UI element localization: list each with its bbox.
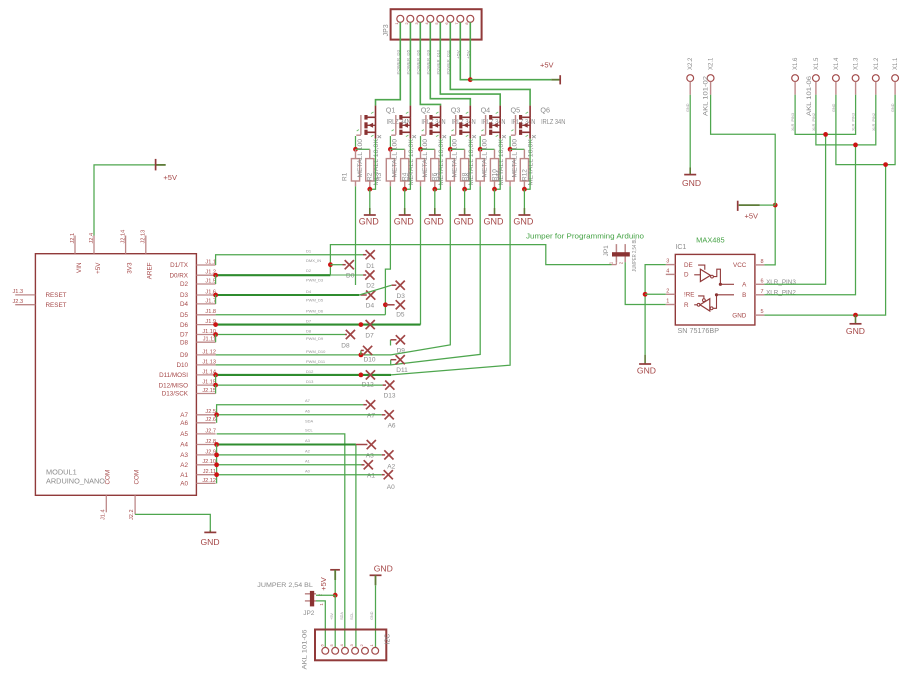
wire diagonal to D3 flag — [359, 285, 391, 295]
svg-text:A4: A4 — [180, 442, 188, 449]
svg-text:1: 1 — [666, 299, 669, 305]
net stub A2 — [382, 454, 385, 456]
wire gate node Q4 — [450, 148, 464, 150]
junction PWM_D5/D5 flag node — [383, 302, 388, 307]
wire net D7 (J1.9 row) — [216, 324, 421, 326]
junction gate node Q2 — [388, 147, 393, 152]
wire X2.2 to GND — [689, 95, 691, 168]
svg-text:A6: A6 — [305, 408, 311, 413]
svg-text:J2.3: J2.3 — [13, 299, 24, 305]
svg-text:D12: D12 — [306, 369, 314, 374]
svg-text:D0/RX: D0/RX — [169, 272, 188, 279]
junction gate node Q4 — [448, 147, 453, 152]
wire source Q6 to ground node — [524, 139, 530, 190]
pin J2.3 (RESET) stub — [15, 304, 35, 306]
svg-text:A6: A6 — [388, 423, 396, 430]
svg-text:PWM_D6: PWM_D6 — [306, 309, 324, 314]
svg-text:J2.14: J2.14 — [120, 230, 126, 244]
pin J1.10 (D7) stub — [196, 334, 215, 336]
svg-text:GND: GND — [682, 178, 701, 188]
net stub A7 — [363, 404, 367, 406]
junction J2.10 — [214, 462, 219, 467]
svg-text:GND: GND — [686, 103, 690, 112]
JP3 pin 5 circle — [437, 15, 444, 22]
supply +5V symbol (JP2) — [330, 569, 340, 571]
pin J1.5 (D2) stub — [196, 283, 215, 285]
pin J1.15 (D12/MISO) stub — [196, 384, 215, 386]
svg-text:D1: D1 — [366, 263, 375, 270]
svg-text:A1: A1 — [305, 458, 311, 463]
connector X1.4 pin — [833, 75, 840, 82]
svg-text:3V3: 3V3 — [126, 262, 133, 274]
svg-text:7: 7 — [761, 289, 764, 295]
junction gate node Q6 — [508, 147, 513, 152]
svg-text:D7: D7 — [180, 332, 189, 339]
pin J1.8 (D5) stub — [196, 314, 215, 316]
wire PWM_D3 from R1 — [355, 186, 357, 285]
svg-text:+5V: +5V — [330, 613, 334, 620]
I2C pin 4 circle — [342, 647, 349, 654]
svg-text:D1: D1 — [306, 248, 312, 253]
I2C pin 2 circle — [362, 647, 369, 654]
transistor Q1 IRLZ 34N — [360, 115, 362, 135]
svg-text:AREF: AREF — [147, 262, 154, 279]
pin J2.11 (A1) stub — [196, 474, 215, 476]
wire net PWM_D10 (J1.12 row) — [216, 354, 391, 356]
svg-text:B: B — [742, 292, 746, 299]
wire net D2 continuation — [330, 274, 363, 276]
svg-text:A3: A3 — [180, 452, 188, 459]
junction J1.9 — [213, 322, 218, 327]
wire net A7 (J2.5 stub up) — [217, 405, 364, 415]
svg-text:ARDUINO_NANO: ARDUINO_NANO — [46, 476, 105, 485]
svg-text:D7: D7 — [306, 318, 312, 323]
junction J2.5 — [214, 412, 219, 417]
svg-text:D9: D9 — [180, 352, 189, 359]
net stub D0 — [330, 264, 342, 266]
I2C pin 5 circle — [332, 647, 339, 654]
wire net A2 (J2.9 row) — [217, 454, 382, 456]
svg-text:X1.5: X1.5 — [814, 57, 820, 70]
svg-text:A2: A2 — [305, 449, 311, 454]
svg-text:GND: GND — [637, 365, 656, 375]
wire J1.2 to J1.5 — [215, 275, 217, 284]
net flag D1 — [366, 250, 375, 259]
svg-text:GND: GND — [454, 217, 475, 227]
svg-text:Q1: Q1 — [386, 106, 396, 115]
net stub A6 — [382, 414, 386, 416]
svg-text:D13/SCK: D13/SCK — [162, 391, 189, 398]
pin J2.5 (A7) stub — [196, 414, 215, 416]
svg-text:GND: GND — [484, 217, 505, 227]
wire gate Q4 — [449, 136, 451, 149]
IC1 pin 4 (D) stub — [666, 273, 676, 275]
supply +5V symbol (MAX485) — [739, 204, 760, 206]
svg-text:MODUL1: MODUL1 — [46, 468, 77, 477]
net stub D13 — [383, 384, 386, 386]
svg-text:J2.11: J2.11 — [203, 469, 216, 475]
pin J1.6 (D3) stub — [196, 294, 215, 296]
wire POWER_D5 JP3.2 to Q2 drain — [409, 22, 411, 105]
junction ground node Q5 — [492, 187, 497, 192]
jumper JP1 body — [615, 244, 617, 262]
junction J1.2 — [213, 273, 218, 278]
svg-text:Jumper for Programming Arduino: Jumper for Programming Arduino — [526, 232, 644, 241]
svg-text:D6: D6 — [180, 322, 189, 329]
svg-text:MAX485: MAX485 — [696, 237, 725, 244]
svg-text:X1.3: X1.3 — [854, 57, 860, 70]
wire JP2 pin2 branch — [316, 594, 335, 596]
wire gate node Q5 — [480, 148, 494, 150]
wire GND pin5 — [764, 165, 885, 316]
svg-text:J1.11: J1.11 — [203, 337, 216, 343]
net flag D2 — [365, 270, 374, 279]
ground GND (Q3 channel) — [434, 189, 436, 208]
svg-text:VCC: VCC — [733, 262, 747, 269]
svg-text:D0: D0 — [346, 272, 355, 279]
connector X1.1 pin — [892, 75, 899, 82]
svg-text:D10: D10 — [364, 357, 376, 364]
net flag D9 — [396, 335, 405, 344]
svg-text:J2.15: J2.15 — [202, 388, 216, 394]
wire net PWM_D6 (J1.8 row) — [216, 314, 386, 316]
svg-text:D5: D5 — [396, 312, 405, 319]
svg-text:JUMPER 2,54 BL: JUMPER 2,54 BL — [257, 582, 313, 589]
wire gate node Q2 — [390, 148, 404, 150]
svg-text:SDA: SDA — [340, 612, 344, 620]
net stub D8 — [345, 334, 347, 336]
wire net D1 (J1.1 stub up) — [216, 255, 363, 265]
svg-text:A7: A7 — [367, 413, 375, 420]
net flag D8 — [346, 330, 355, 339]
svg-text:J1.3: J1.3 — [13, 289, 24, 295]
pin J2.6 (A6) stub — [196, 422, 215, 424]
svg-text:D2: D2 — [180, 281, 189, 288]
net flag A1 — [364, 460, 373, 469]
connector X2.2 pin — [687, 75, 694, 82]
junction ground node Q1 — [367, 187, 372, 192]
IC1 internal receiver buffer — [700, 299, 710, 311]
connector X1.5 pin — [813, 75, 820, 82]
junction D7 flag node — [359, 322, 364, 327]
net flag D0 — [345, 260, 354, 269]
svg-text:R1: R1 — [341, 172, 348, 181]
IC1 pin 6 (A) stub — [755, 283, 765, 285]
svg-text:GND: GND — [370, 611, 374, 620]
svg-text:METALL 100: METALL 100 — [511, 138, 518, 177]
svg-text:5: 5 — [761, 309, 764, 315]
svg-text:XLR_PIN3: XLR_PIN3 — [766, 279, 796, 286]
svg-text:A7: A7 — [180, 412, 188, 419]
pin J2.10 (A2) stub — [196, 464, 215, 466]
svg-text:D10: D10 — [176, 362, 188, 369]
resistor R12 METALL 18,0K — [523, 149, 525, 158]
svg-text:D11: D11 — [396, 367, 408, 374]
svg-text:J1.8: J1.8 — [205, 309, 216, 315]
junction J2.8 — [214, 442, 219, 447]
svg-text:A1: A1 — [367, 472, 375, 479]
svg-text:I2C: I2C — [385, 634, 392, 645]
resistor R6 METALL 18,0K — [434, 149, 436, 158]
junction ground node Q4 — [462, 187, 467, 192]
wire XLR_PIN2 bus (X1.5-X1.2) — [816, 95, 876, 145]
wire net SDA (J2.8 row) — [217, 443, 356, 445]
svg-text:J2.6: J2.6 — [205, 417, 216, 423]
svg-text:VIN: VIN — [76, 262, 83, 273]
svg-text:A0: A0 — [387, 484, 395, 491]
svg-text:J1.12: J1.12 — [202, 349, 216, 355]
wire JP2 pin1 to I2C pin6 — [316, 601, 325, 647]
wire PWM_D11 from R11 — [391, 186, 510, 375]
IC1 internal junction A — [719, 283, 722, 286]
wire +5V from J2.4 — [94, 165, 156, 236]
svg-text:Q2: Q2 — [421, 106, 431, 115]
svg-text:PWM_D11: PWM_D11 — [306, 359, 326, 364]
svg-text:AKL 101-06: AKL 101-06 — [807, 75, 813, 116]
net flag D4 — [366, 291, 375, 300]
svg-text:A6: A6 — [180, 420, 188, 427]
svg-text:RESET: RESET — [46, 292, 67, 299]
svg-text:GND: GND — [374, 563, 393, 573]
svg-text:X1.2: X1.2 — [874, 57, 880, 70]
svg-text:A3: A3 — [366, 452, 374, 459]
supply +5V symbol (left) — [156, 164, 166, 166]
svg-text:R9: R9 — [466, 172, 473, 181]
IC1 internal driver buffer — [700, 269, 710, 281]
ground GND (X2.2) — [689, 168, 691, 175]
wire DMX_IN up — [330, 245, 611, 275]
pin J2.7 (A5) stub — [196, 433, 215, 435]
svg-text:JP3: JP3 — [383, 24, 390, 36]
net flag D12 — [366, 370, 375, 379]
wire PWM_D5 from R3 — [385, 186, 390, 314]
wire XLR_PIN3 bus (X1.6-X1.3) — [795, 95, 856, 135]
svg-text:+5V: +5V — [319, 577, 328, 591]
svg-text:X1.1: X1.1 — [893, 57, 899, 70]
svg-text:R5: R5 — [406, 172, 413, 181]
net stub D9 (floating) — [390, 340, 392, 346]
svg-text:GND: GND — [732, 312, 746, 319]
svg-text:JP1: JP1 — [603, 245, 610, 257]
wire source Q4 to ground node — [465, 139, 471, 190]
svg-text:PWM_D10: PWM_D10 — [306, 349, 326, 354]
wire +5V rail to symbol — [470, 79, 551, 81]
wire PWM_D6 from R5 — [420, 186, 422, 324]
junction J1.15 — [213, 383, 218, 388]
svg-text:AKL 101-02: AKL 101-02 — [703, 75, 709, 116]
svg-text:D8: D8 — [180, 339, 189, 346]
resistor R10 METALL 18,0K — [494, 149, 496, 158]
wire net A0 (J2.11 row) — [217, 474, 382, 476]
junction DMX_IN — [328, 262, 333, 267]
wire net D8 (J1.10 row) — [216, 334, 345, 336]
wire net D13 (J1.15 row) — [216, 384, 383, 386]
wire VCC to +5V — [764, 205, 775, 265]
net stub A0 — [382, 474, 385, 476]
wire DE/!RE tie to GND — [645, 265, 666, 355]
wire gate node Q1 — [356, 148, 370, 150]
svg-text:J2.10: J2.10 — [202, 459, 216, 465]
transistor Q2 IRLZ 34N — [395, 115, 397, 135]
junction J1.10 — [213, 332, 218, 337]
net stub D10 — [360, 350, 362, 355]
I2C pin 1 circle — [372, 647, 379, 654]
ground GND (Q6 channel) — [523, 189, 525, 208]
pin J2.12 (A0) stub — [196, 482, 215, 484]
JP3 pin 1 circle — [397, 15, 404, 22]
svg-text:J1.13: J1.13 — [202, 359, 216, 365]
svg-text:DE: DE — [684, 262, 693, 269]
junction J1.14 — [213, 373, 218, 378]
junction +5V (MAX485) — [773, 203, 778, 208]
svg-text:D2: D2 — [366, 283, 375, 290]
junction GND (X1) — [883, 162, 888, 167]
pin J2.9 (A3) stub — [196, 454, 215, 456]
supply +5V symbol (top right) — [551, 79, 560, 81]
svg-text:Q5: Q5 — [511, 106, 521, 115]
jumper JP2 body — [305, 593, 316, 595]
I2C pin 6 circle — [322, 647, 329, 654]
svg-text:A2: A2 — [180, 462, 188, 469]
svg-text:J1.1: J1.1 — [205, 259, 216, 265]
junction gate node Q3 — [418, 147, 423, 152]
resistor R11 METALL 100 — [509, 149, 511, 158]
wire POWER_D9 JP3.4 to Q4 drain — [430, 22, 470, 105]
net stub D5 — [385, 304, 394, 306]
JP3 pin 4 circle — [427, 15, 434, 22]
svg-text:JP2: JP2 — [303, 610, 315, 617]
wire SDA down to I2C — [355, 445, 357, 648]
svg-text:8: 8 — [761, 259, 764, 265]
module MODUL1 ARDUINO_NANO body — [35, 254, 196, 496]
transistor Q4 IRLZ 34N — [455, 115, 457, 135]
svg-text:GND: GND — [201, 537, 220, 547]
svg-text:J1.7: J1.7 — [205, 298, 216, 304]
wire source Q5 to ground node — [495, 139, 501, 190]
svg-text:A0: A0 — [180, 481, 188, 488]
svg-text:SCL: SCL — [305, 428, 314, 433]
svg-text:X1.6: X1.6 — [793, 57, 799, 70]
wire X2.1 to +5V — [711, 95, 776, 205]
net flag D13 — [385, 381, 394, 390]
wire POWER_D6 JP3.3 to Q3 drain — [420, 22, 440, 105]
svg-text:Q6: Q6 — [540, 106, 550, 115]
svg-text:A2: A2 — [387, 463, 395, 470]
resistor R4 METALL 18,0K — [404, 149, 406, 158]
svg-text:A3: A3 — [305, 438, 311, 443]
transistor Q3 IRLZ 34N — [425, 115, 427, 135]
IC1 pin 8 (VCC) stub — [755, 264, 765, 266]
wire gate node Q6 — [510, 148, 524, 150]
svg-text:A0: A0 — [305, 468, 311, 473]
junction +5V rail — [468, 77, 473, 82]
pin J2.15 (D13/SCK) stub — [196, 393, 215, 395]
svg-text:RESET: RESET — [46, 302, 67, 309]
resistor R3 METALL 100 — [389, 149, 391, 158]
svg-text:D2: D2 — [306, 268, 312, 273]
net flag D11 — [396, 355, 405, 364]
pin J1.9 (D6) stub — [196, 324, 215, 326]
svg-text:J2.7: J2.7 — [205, 428, 216, 434]
resistor R9 METALL 100 — [479, 149, 481, 158]
svg-text:+5V: +5V — [745, 211, 759, 220]
junction D10 flag node — [359, 353, 364, 358]
svg-text:D4: D4 — [180, 301, 189, 308]
net flag D7 — [366, 320, 375, 329]
wire net DMX_IN (J1.2 row) — [216, 274, 331, 276]
wire J1.15 to J2.15 — [215, 385, 217, 393]
net flag D10 — [363, 346, 372, 355]
svg-text:IRLZ 34N: IRLZ 34N — [541, 119, 565, 126]
JP3 pin 7 circle — [457, 15, 464, 22]
pin J1.12 (D9) stub — [196, 354, 215, 356]
svg-text:GND: GND — [394, 217, 415, 227]
pin J1.7 (D4) stub — [196, 303, 215, 305]
net stub A3 — [356, 444, 368, 446]
wire net D4 (J1.6 row) — [216, 294, 360, 296]
svg-text:D13: D13 — [384, 392, 396, 399]
svg-text:R7: R7 — [436, 172, 443, 181]
wire !RE branch — [645, 293, 666, 295]
wire GND to I2C pin1 — [375, 585, 377, 647]
net flag D3 — [396, 281, 405, 290]
connector X1.6 pin — [792, 75, 799, 82]
wire J2.8 chain down — [216, 445, 218, 484]
svg-text:D3: D3 — [397, 293, 406, 300]
net flag A3 — [367, 440, 376, 449]
svg-text:COM: COM — [105, 470, 112, 485]
resistor R8 METALL 18,0K — [464, 149, 466, 158]
junction J2.9 — [214, 453, 219, 458]
svg-text:J2.12: J2.12 — [202, 478, 216, 484]
svg-text:Q4: Q4 — [481, 106, 491, 115]
resistor R1 METALL 100 — [355, 149, 357, 158]
svg-text:GND: GND — [846, 326, 865, 336]
svg-text:D13: D13 — [306, 379, 314, 384]
wire J1.14 to J1.15 — [215, 375, 217, 385]
junction J2.11 — [214, 472, 219, 477]
svg-text:2: 2 — [666, 288, 669, 294]
net stub D4 — [361, 294, 367, 296]
connector X1.2 pin — [872, 75, 879, 82]
svg-text:D9: D9 — [397, 347, 406, 354]
JP3 pin 6 circle — [447, 15, 454, 22]
svg-text:GND: GND — [424, 217, 445, 227]
junction ground node Q2 — [402, 187, 407, 192]
JP3 pin 3 circle — [417, 15, 424, 22]
resistor R5 METALL 100 — [420, 149, 422, 158]
wire net A1 (J2.10 row) — [217, 464, 362, 466]
svg-text:IC1: IC1 — [675, 244, 686, 251]
svg-text:A1: A1 — [180, 472, 188, 479]
net stub D1 — [363, 254, 366, 256]
wire net SCL (J2.7 row) — [217, 434, 345, 647]
pin J1.3 (RESET) stub — [15, 294, 35, 296]
svg-text:J1.5: J1.5 — [205, 278, 216, 284]
svg-text:J1.4: J1.4 — [101, 509, 107, 520]
wire source Q1 to ground node — [370, 139, 376, 190]
svg-text:SDA: SDA — [305, 419, 314, 424]
ground GND (IC1 pin5) — [855, 315, 857, 324]
net flag A6 — [385, 410, 394, 419]
wire gate Q1 — [355, 136, 357, 149]
svg-text:D11/MOSI: D11/MOSI — [159, 372, 188, 379]
IC1 pin 2 (!RE) stub — [666, 293, 676, 295]
svg-text:METALL 18,0K: METALL 18,0K — [528, 138, 535, 185]
wire PWM_D9 from R7 — [391, 186, 450, 355]
wire source Q2 to ground node — [405, 139, 411, 190]
svg-text:D1/TX: D1/TX — [170, 262, 189, 269]
